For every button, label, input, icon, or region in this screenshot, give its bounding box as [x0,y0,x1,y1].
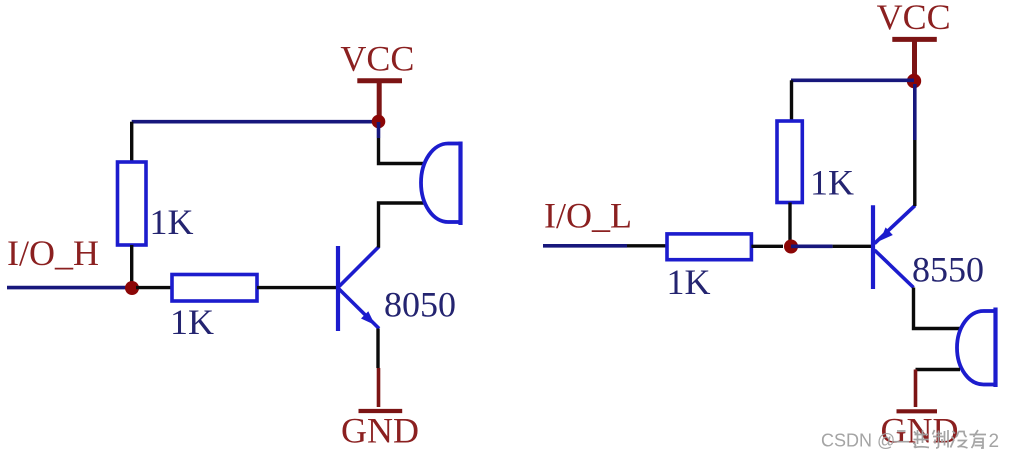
svg-text:CSDN @: CSDN @ [821,431,895,451]
svg-text:VCC: VCC [340,39,414,79]
svg-text:2: 2 [989,431,1000,452]
svg-text:1K: 1K [667,262,711,302]
svg-text:I/O_H: I/O_H [7,233,99,273]
svg-text:1K: 1K [170,302,214,342]
svg-text:1K: 1K [150,202,194,242]
svg-text:8050: 8050 [384,285,456,325]
svg-text:1K: 1K [810,163,854,203]
svg-text:I/O_L: I/O_L [544,196,632,236]
svg-text:VCC: VCC [877,0,951,37]
svg-text:8550: 8550 [912,249,984,289]
svg-text:GND: GND [341,411,419,451]
